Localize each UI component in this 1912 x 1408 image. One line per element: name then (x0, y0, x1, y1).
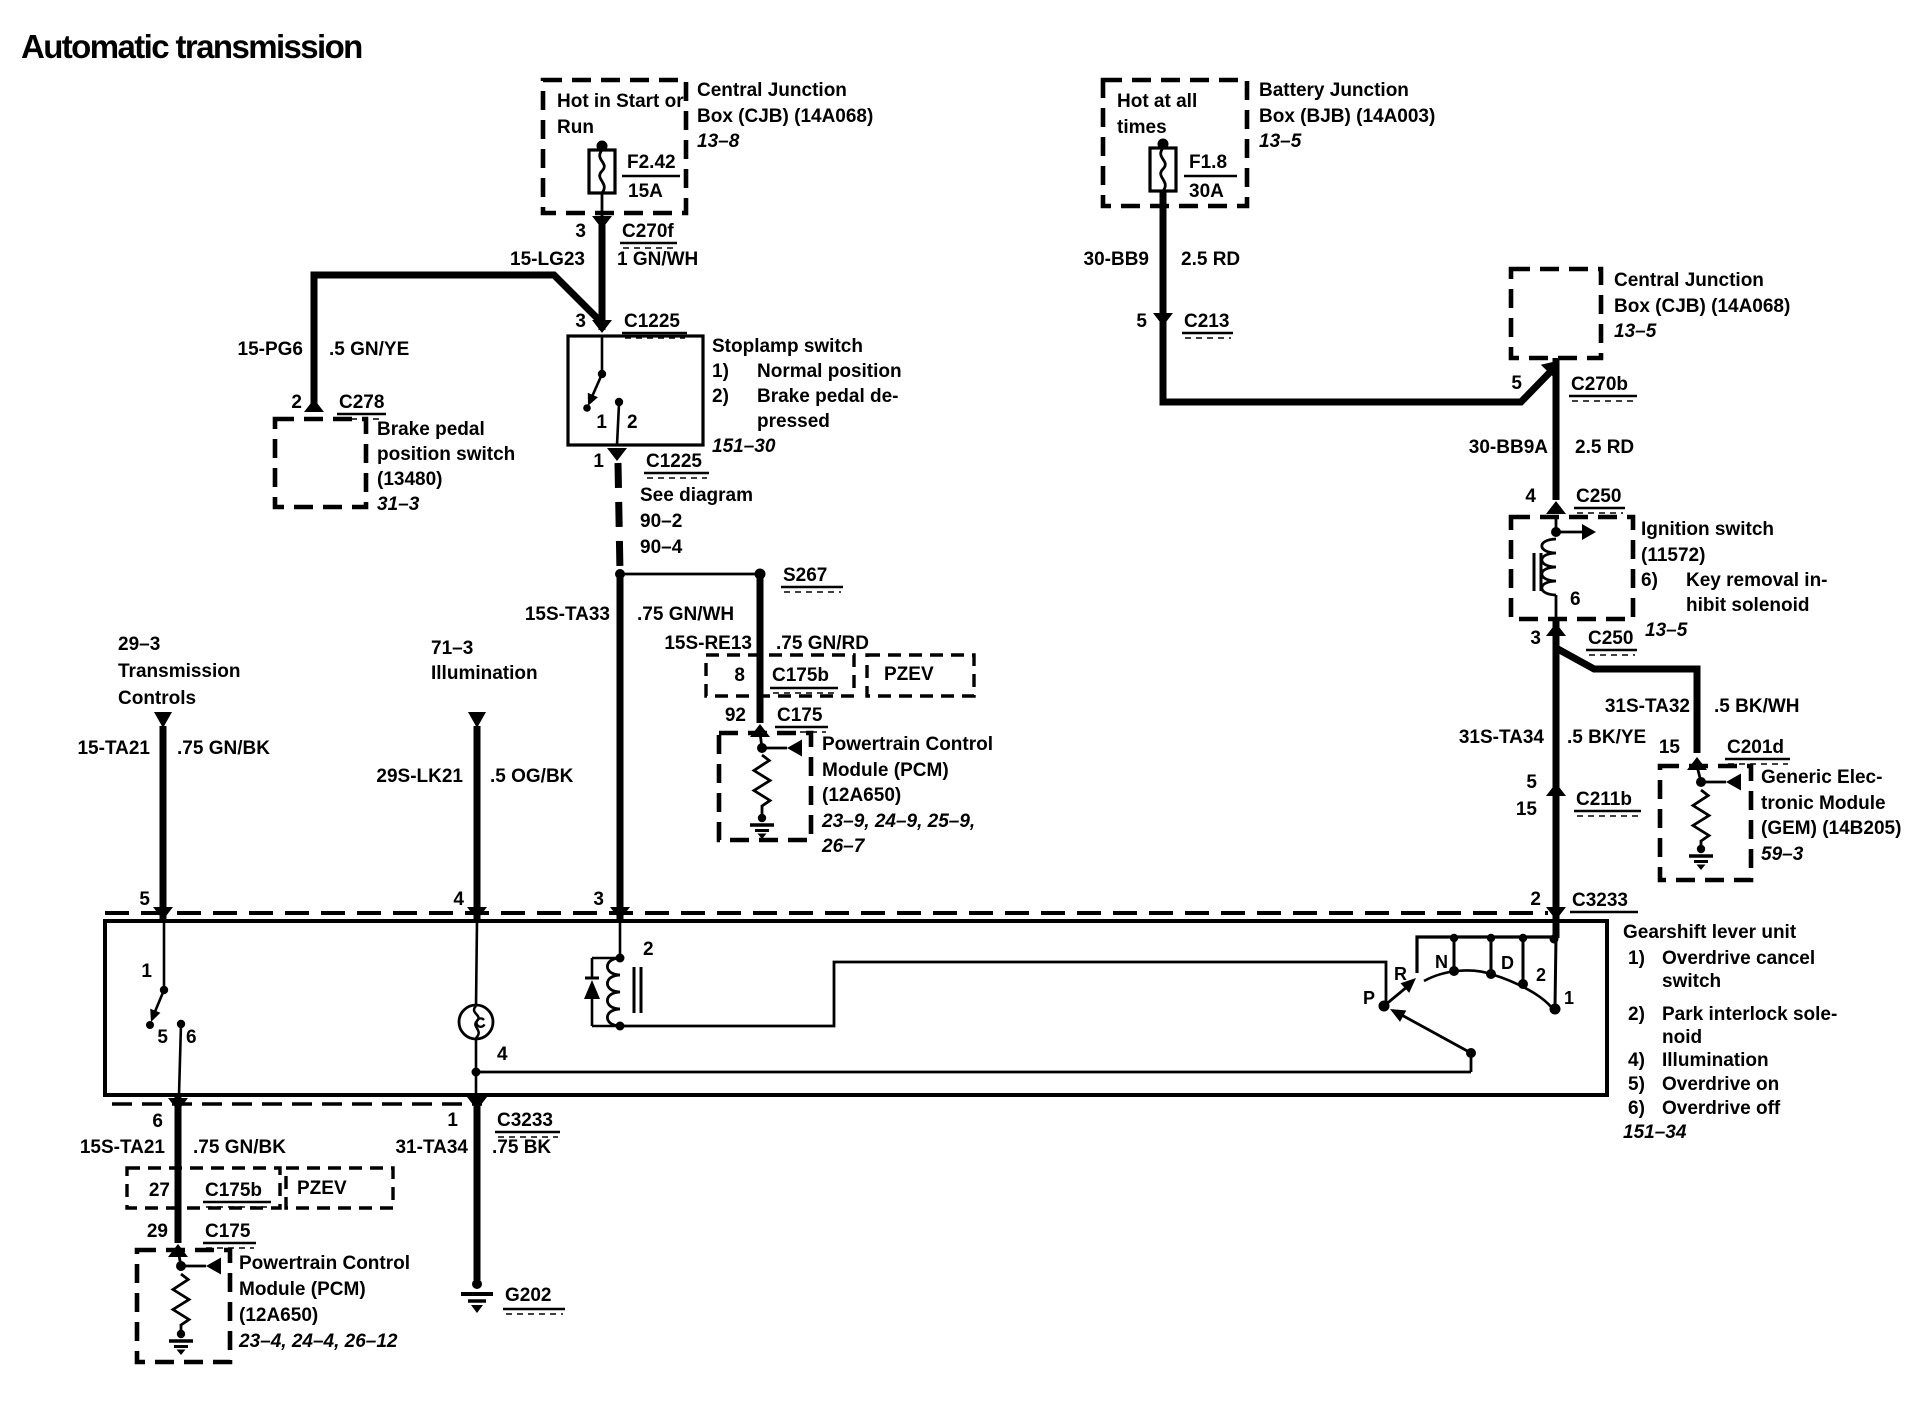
svg-text:F1.8: F1.8 (1189, 152, 1227, 173)
label pin 1 C1225 bottom (593, 451, 709, 478)
label Central Junction Box CJB 14A068 13-8 (697, 80, 873, 152)
PZEV dashed box (middle) (867, 655, 974, 696)
label Battery Junction Box BJB 14A003 13-5 (1259, 80, 1435, 152)
svg-text:(12A650): (12A650) (239, 1305, 318, 1326)
svg-text:1): 1) (1628, 948, 1645, 969)
label pin 4 C250 (1525, 486, 1625, 513)
label pin 3 (593, 889, 604, 910)
gear selector stub D (1522, 937, 1525, 982)
stoplamp switch pole wire (601, 336, 604, 372)
svg-text:5: 5 (1511, 373, 1522, 394)
svg-text:2): 2) (712, 386, 729, 407)
overdrive cancel switch terminal labels 5 6 (157, 1027, 196, 1048)
wire 30-BB9A 2.5 RD vertical (1553, 358, 1560, 500)
splice S267 dot (755, 569, 766, 580)
svg-text:31S-TA34: 31S-TA34 (1459, 727, 1545, 748)
gear selector stub 1 (1555, 937, 1556, 1007)
label pin 1 C3233 bottom (447, 1110, 560, 1137)
label G202 (503, 1285, 565, 1314)
connector C175b pin 27 dashed box (127, 1168, 280, 1208)
gear selector contact 1 dot (1550, 1004, 1561, 1015)
svg-text:29: 29 (147, 1221, 168, 1242)
svg-text:Normal position: Normal position (757, 361, 902, 382)
svg-text:13–5: 13–5 (1259, 131, 1302, 152)
wire label 15S-TA21 .75 GN/BK (80, 1137, 286, 1158)
svg-text:Run: Run (557, 117, 594, 138)
connector C3233 dashed boundary line (105, 911, 1548, 915)
svg-text:15S-TA33: 15S-TA33 (525, 604, 610, 625)
powertrain control module PCM dashed box (middle) (719, 733, 811, 840)
label pin 8 C175b (734, 665, 838, 693)
svg-text:23–9, 24–9, 25–9,: 23–9, 24–9, 25–9, (821, 811, 975, 832)
gear selector wiper feed (1390, 1009, 1471, 1053)
illumination lamp (459, 1005, 493, 1039)
illumination lamp feed wire (476, 921, 477, 1006)
svg-text:2: 2 (291, 392, 302, 413)
wire 15-LG23 1 GN/WH vertical (599, 225, 606, 330)
label pin 3 C1225 top (575, 311, 687, 338)
svg-text:(GEM) (14B205): (GEM) (14B205) (1761, 818, 1901, 839)
overdrive cancel switch contact 6 dot (177, 1020, 185, 1028)
svg-text:29S-LK21: 29S-LK21 (376, 766, 463, 787)
wire label 15-LG23 1 GN/WH (510, 249, 698, 270)
svg-text:15S-TA21: 15S-TA21 (80, 1137, 166, 1158)
svg-text:C250: C250 (1588, 628, 1633, 649)
connector C1225 pin 1 arrow (607, 448, 627, 461)
wire 29S-LK21 .5 OG/BK vertical (474, 726, 481, 919)
label Ignition switch 11572 legend (1641, 519, 1828, 641)
svg-text:31–3: 31–3 (377, 494, 420, 515)
svg-text:5: 5 (1136, 311, 1147, 332)
svg-text:13–5: 13–5 (1645, 620, 1688, 641)
svg-text:Key removal in-: Key removal in- (1686, 570, 1828, 591)
svg-text:Park interlock sole-: Park interlock sole- (1662, 1004, 1837, 1025)
connector C201d pin 15 arrow (1687, 757, 1707, 770)
wire label 29S-LK21 .5 OG/BK (376, 766, 573, 787)
park interlock solenoid top junction dot (616, 954, 625, 963)
svg-text:2.5 RD: 2.5 RD (1181, 249, 1240, 270)
svg-text:C201d: C201d (1727, 737, 1784, 758)
svg-text:Controls: Controls (118, 688, 196, 709)
wire 30-BB9 horizontal run (1163, 366, 1556, 402)
svg-text:3: 3 (1530, 628, 1541, 649)
wire label 15S-TA33 .75 GN/WH (525, 604, 734, 625)
svg-text:G202: G202 (505, 1285, 551, 1306)
park interlock solenoid bottom junction dot (616, 1022, 625, 1031)
park interlock solenoid coil (607, 958, 620, 1026)
svg-text:Powertrain Control: Powertrain Control (239, 1253, 410, 1274)
label terminal 4 (497, 1044, 508, 1065)
svg-text:13–5: 13–5 (1614, 321, 1657, 342)
svg-text:13–8: 13–8 (697, 131, 740, 152)
wire lamp rail (476, 1071, 1471, 1074)
connector C250 pin 4 arrow (1546, 501, 1566, 514)
fuse F2.42 (589, 141, 615, 194)
connector C211b arrow (1546, 783, 1566, 796)
park interlock solenoid core bars (634, 967, 641, 1013)
wire 15-PG6 .5 GN/YE branch (314, 275, 603, 404)
ignition switch internal circuit arrow (1556, 524, 1596, 540)
PCM wire entry (middle) (760, 733, 762, 748)
label Brake pedal position switch 13480 31-3 (377, 419, 515, 515)
wire label 30-BB9A 2.5 RD (1469, 437, 1634, 458)
svg-text:6: 6 (186, 1027, 197, 1048)
svg-text:Box (CJB) (14A068): Box (CJB) (14A068) (697, 106, 873, 127)
gear selector wiper blade to R (1384, 978, 1416, 1006)
GEM junction dot (1696, 777, 1706, 787)
fuse F2.42 value label 15A (622, 152, 680, 202)
svg-text:.75 BK: .75 BK (492, 1137, 551, 1158)
label pin 92 C175 (725, 705, 828, 732)
svg-text:P: P (1363, 988, 1375, 1008)
PCM internal circuit arrow (bottom) (181, 1258, 221, 1275)
ignition switch entry wire (1555, 517, 1558, 532)
title Automatic transmission (21, 28, 362, 65)
label Stoplamp switch legend (712, 336, 902, 457)
svg-text:8: 8 (734, 665, 745, 686)
splice S267 junction dot left (615, 569, 625, 579)
label pin 29 C175 (147, 1221, 256, 1248)
svg-text:.5 GN/YE: .5 GN/YE (329, 339, 409, 360)
gear selector contact N dot (1449, 966, 1459, 976)
svg-text:Overdrive cancel: Overdrive cancel (1662, 948, 1815, 969)
park interlock solenoid feed wire (619, 921, 622, 957)
svg-text:times: times (1117, 117, 1167, 138)
wire label 30-BB9 2.5 RD (1084, 249, 1241, 270)
svg-text:30A: 30A (1189, 181, 1224, 202)
svg-text:59–3: 59–3 (1761, 844, 1804, 865)
ignition switch dashed box (1511, 517, 1633, 619)
GEM internal resistor (1693, 790, 1709, 841)
label pin 4 (453, 889, 464, 910)
overdrive cancel switch blade (146, 990, 164, 1029)
PCM internal wire to ground (bottom) (180, 1324, 183, 1331)
svg-text:Central Junction: Central Junction (697, 80, 847, 101)
svg-text:15-LG23: 15-LG23 (510, 249, 585, 270)
svg-text:6: 6 (152, 1111, 163, 1132)
wire fuse F2.42 to connector C270f (601, 193, 604, 222)
PCM internal circuit arrow (middle) (762, 740, 802, 757)
svg-text:Illumination: Illumination (431, 663, 538, 684)
svg-text:S267: S267 (783, 565, 827, 586)
svg-text:Gearshift lever unit: Gearshift lever unit (1623, 922, 1797, 943)
svg-text:(11572): (11572) (1641, 545, 1705, 566)
label PZEV (bottom) (297, 1178, 347, 1199)
wire label 31-TA34 .75 BK (395, 1137, 551, 1158)
wire 15S-TA33 .75 GN/WH pin 3 vertical (617, 574, 624, 919)
label terminal 2 (643, 939, 654, 960)
connector C3233 pin 6 arrow (168, 1098, 188, 1111)
svg-text:2: 2 (1530, 889, 1541, 910)
svg-text:(13480): (13480) (377, 469, 443, 490)
PCM junction dot (middle) (757, 743, 767, 753)
svg-text:1: 1 (1564, 988, 1574, 1008)
svg-text:1): 1) (712, 361, 729, 382)
label Hot at all times (1117, 91, 1197, 138)
svg-text:2: 2 (643, 939, 654, 960)
ground G202 symbol (461, 1279, 493, 1313)
svg-text:.75 GN/WH: .75 GN/WH (637, 604, 734, 625)
gear position labels P R N D 2 1 (1363, 952, 1574, 1008)
svg-text:Ignition switch: Ignition switch (1641, 519, 1774, 540)
svg-text:1: 1 (593, 451, 604, 472)
svg-text:C175: C175 (205, 1221, 251, 1242)
lamp wire to pin 1 (475, 1072, 478, 1095)
GEM internal ground (1689, 845, 1713, 870)
wire label 15S-RE13 .75 GN/RD (664, 633, 869, 654)
svg-text:C1225: C1225 (646, 451, 702, 472)
fuse F1.8 value label 30A (1184, 152, 1237, 202)
svg-text:6: 6 (1570, 589, 1581, 610)
svg-text:Illumination: Illumination (1662, 1050, 1769, 1071)
gear selector stub N (1453, 937, 1456, 969)
label See diagram 90-2 90-4 (640, 485, 753, 558)
label Powertrain Control Module PCM 12A650 (middle) (821, 734, 993, 857)
svg-text:71–3: 71–3 (431, 638, 473, 659)
svg-text:Module (PCM): Module (PCM) (822, 760, 949, 781)
svg-text:15: 15 (1516, 799, 1538, 820)
wire splice to S267 (620, 573, 760, 576)
svg-text:(12A650): (12A650) (822, 785, 901, 806)
svg-text:C250: C250 (1576, 486, 1621, 507)
svg-text:15: 15 (1659, 737, 1681, 758)
PCM internal ground (bottom) (169, 1330, 193, 1355)
connector C3233 pin 5 arrow (153, 907, 173, 920)
stoplamp switch contact 2 dot (615, 398, 623, 406)
svg-text:3: 3 (575, 221, 586, 242)
svg-text:.75 GN/RD: .75 GN/RD (776, 633, 869, 654)
label pin 3 C270f (575, 221, 677, 248)
svg-text:Automatic transmission: Automatic transmission (21, 28, 362, 65)
connector C3233 pin 3 arrow (610, 907, 630, 920)
connector C175b pin 8 dashed box (706, 655, 854, 696)
wire 30-BB9 2.5 RD vertical (1160, 191, 1167, 402)
label pin 27 C175b (149, 1180, 271, 1207)
svg-text:Transmission: Transmission (118, 661, 241, 682)
svg-text:Hot in Start or: Hot in Start or (557, 91, 684, 112)
svg-text:tronic Module: tronic Module (1761, 793, 1886, 814)
svg-text:90–4: 90–4 (640, 537, 683, 558)
svg-text:Hot at all: Hot at all (1117, 91, 1197, 112)
svg-text:4: 4 (1525, 486, 1536, 507)
ignition switch key-inhibit solenoid coil (1542, 539, 1556, 595)
svg-text:C175b: C175b (205, 1180, 262, 1201)
off-page connector 29-3 Transmission Controls (118, 634, 241, 728)
svg-text:6): 6) (1628, 1098, 1645, 1119)
gear selector detent arc (1424, 970, 1552, 1008)
powertrain control module PCM dashed box (bottom) (137, 1250, 230, 1362)
svg-text:.75 GN/BK: .75 GN/BK (177, 738, 270, 759)
svg-text:Battery Junction: Battery Junction (1259, 80, 1409, 101)
svg-text:Overdrive off: Overdrive off (1662, 1098, 1781, 1119)
GEM wire entry (1697, 766, 1701, 782)
connector C3233 pin 1 arrow (467, 1097, 487, 1110)
label pin 2 C278 (291, 392, 386, 419)
label pins 5 15 C211b (1516, 772, 1641, 820)
svg-text:29–3: 29–3 (118, 634, 160, 655)
overdrive cancel switch pole wire (163, 921, 166, 989)
label pin 5 C213 (1136, 311, 1233, 338)
svg-text:position switch: position switch (377, 444, 515, 465)
gear selector wiper pivot P dot (1379, 1001, 1390, 1012)
central junction box CJB (right) dashed box (1511, 269, 1601, 358)
generic electronic module GEM dashed box (1660, 766, 1751, 880)
svg-text:.5 BK/WH: .5 BK/WH (1714, 696, 1800, 717)
svg-text:noid: noid (1662, 1027, 1702, 1048)
lamp junction dot (472, 1068, 481, 1077)
svg-text:F2.42: F2.42 (627, 152, 676, 173)
connector C250 pin 3 arrow (1546, 623, 1566, 636)
connector C175 pin 29 arrow (168, 1244, 188, 1257)
svg-text:.75 GN/BK: .75 GN/BK (193, 1137, 286, 1158)
PCM internal resistor (bottom) (173, 1274, 189, 1325)
connector C3233 pin 4 arrow (467, 907, 487, 920)
wire solenoid to gear selector common (620, 962, 1386, 1026)
svg-text:PZEV: PZEV (297, 1178, 347, 1199)
svg-text:hibit solenoid: hibit solenoid (1686, 595, 1810, 616)
overdrive cancel switch contact wire to pin 6 (179, 1024, 181, 1095)
label S267 (781, 565, 843, 592)
svg-text:C3233: C3233 (497, 1110, 553, 1131)
battery junction box BJB dashed box (1103, 80, 1247, 206)
svg-text:2.5 RD: 2.5 RD (1575, 437, 1634, 458)
gear selector feed junction dot (1466, 1048, 1476, 1058)
svg-text:2: 2 (627, 412, 638, 433)
svg-text:C3233: C3233 (1572, 890, 1628, 911)
label pin 15 C201d (1659, 737, 1790, 764)
svg-text:31S-TA32: 31S-TA32 (1605, 696, 1690, 717)
svg-text:30-BB9A: 30-BB9A (1469, 437, 1548, 458)
PCM wire entry (bottom) (178, 1250, 181, 1266)
svg-text:4: 4 (497, 1044, 508, 1065)
wire 15-TA21 .75 GN/BK vertical (160, 726, 167, 919)
svg-text:Generic Elec-: Generic Elec- (1761, 767, 1882, 788)
brake pedal position switch dashed box (275, 419, 366, 507)
svg-text:15A: 15A (628, 181, 663, 202)
illumination lamp exit wire (475, 1038, 478, 1072)
svg-text:15-TA21: 15-TA21 (77, 738, 150, 759)
connector C1225 pin 3 arrow at junction (592, 320, 612, 333)
svg-text:151–30: 151–30 (712, 436, 776, 457)
svg-text:R: R (1394, 964, 1407, 984)
svg-text:C278: C278 (339, 392, 384, 413)
gear selector stub ND (1490, 937, 1493, 972)
wire label 31S-TA34 .5 BK/YE (1459, 727, 1646, 748)
gear selector contact ND dot (1486, 969, 1496, 979)
svg-text:15S-RE13: 15S-RE13 (664, 633, 752, 654)
stoplamp switch terminal labels 1 2 (596, 412, 637, 433)
svg-text:1: 1 (141, 961, 152, 982)
svg-text:5: 5 (139, 889, 150, 910)
svg-text:31-TA34: 31-TA34 (395, 1137, 468, 1158)
wire 15S-RE13 .75 GN/RD vertical (757, 574, 764, 723)
svg-text:C175: C175 (777, 705, 823, 726)
svg-text:Brake pedal de-: Brake pedal de- (757, 386, 899, 407)
svg-text:D: D (1501, 953, 1514, 973)
svg-text:151–34: 151–34 (1623, 1122, 1687, 1143)
svg-text:23–4, 24–4, 26–12: 23–4, 24–4, 26–12 (238, 1331, 398, 1352)
svg-text:92: 92 (725, 705, 746, 726)
svg-text:See diagram: See diagram (640, 485, 753, 506)
svg-text:26–7: 26–7 (821, 836, 866, 857)
ignition switch junction dot (1551, 527, 1561, 537)
central junction box CJB (14A068) dashed box (543, 80, 686, 213)
overdrive cancel switch pivot dot (160, 986, 168, 994)
connector C270f pin 3 arrow (592, 216, 612, 229)
label pin 5 C270b (1511, 373, 1637, 401)
svg-text:1: 1 (447, 1110, 458, 1131)
svg-text:2): 2) (1628, 1004, 1645, 1025)
label Hot in Start or Run (557, 91, 684, 138)
svg-text:Central Junction: Central Junction (1614, 270, 1764, 291)
stoplamp switch contact wire to pin (617, 404, 619, 445)
svg-text:Stoplamp switch: Stoplamp switch (712, 336, 863, 357)
svg-text:C1225: C1225 (624, 311, 680, 332)
svg-text:N: N (1435, 952, 1448, 972)
gear selector contact bus (1417, 937, 1556, 973)
wire label 15-PG6 .5 GN/YE (238, 339, 410, 360)
svg-text:C211b: C211b (1576, 789, 1632, 810)
svg-text:2: 2 (1536, 965, 1546, 985)
wire label 31S-TA32 .5 BK/WH (1605, 696, 1800, 717)
connector C278 pin 2 arrow (304, 399, 324, 412)
ignition switch solenoid core bars (1534, 553, 1541, 591)
svg-text:C175b: C175b (772, 665, 829, 686)
wire 31-TA34 .75 BK vertical (474, 1097, 481, 1280)
svg-text:3: 3 (593, 889, 604, 910)
svg-text:4: 4 (453, 889, 464, 910)
GEM internal wire to ground (1700, 840, 1703, 846)
label Central Junction Box CJB 14A068 13-5 (right) (1614, 270, 1790, 342)
label pin 5 (139, 889, 150, 910)
PCM internal ground (middle) (750, 814, 774, 839)
wire 31S-TA32 .5 BK/WH branch to GEM (1556, 648, 1697, 753)
clamping diode (584, 958, 620, 1026)
wire 15S-TA21 .75 GN/BK vertical (175, 1097, 182, 1243)
label pin 6 (152, 1111, 163, 1132)
label pin 2 C3233 top (1530, 889, 1638, 912)
stoplamp switch pivot dot (598, 370, 606, 378)
fuse F1.8 (1150, 139, 1176, 192)
connector C213 pin 5 arrow (1153, 313, 1173, 326)
PZEV dashed box (bottom) (286, 1168, 393, 1208)
svg-text:pressed: pressed (757, 411, 830, 432)
ignition switch coil exit wire (1555, 595, 1558, 619)
svg-text:3: 3 (575, 311, 586, 332)
label Generic Electronic Module GEM 14B205 59-3 (1761, 767, 1901, 865)
PCM internal resistor (middle) (754, 755, 770, 806)
wire label 15-TA21 .75 GN/BK (77, 738, 270, 759)
label Powertrain Control Module PCM 12A650 (bottom) (238, 1253, 410, 1352)
GEM internal circuit arrow (1701, 774, 1741, 791)
label PZEV (middle) (884, 664, 934, 685)
svg-text:6): 6) (1641, 570, 1658, 591)
svg-text:.5 BK/YE: .5 BK/YE (1567, 727, 1646, 748)
wire dashed see-diagram segment (618, 463, 620, 572)
stoplamp switch blade (583, 374, 602, 412)
svg-text:Brake pedal: Brake pedal (377, 419, 485, 440)
connector C3233 pin 2 arrow (1546, 907, 1566, 920)
ignition switch terminal label 6 (1570, 589, 1581, 610)
svg-text:C213: C213 (1184, 311, 1229, 332)
svg-text:Module (PCM): Module (PCM) (239, 1279, 366, 1300)
svg-text:5): 5) (1628, 1074, 1645, 1095)
label pin 3 C250 bottom (1530, 628, 1637, 655)
connector C3233 lower dashed boundary (112, 1102, 482, 1106)
svg-text:switch: switch (1662, 971, 1721, 992)
wire feed junction to lamp rail (1470, 1053, 1473, 1072)
svg-text:90–2: 90–2 (640, 511, 682, 532)
